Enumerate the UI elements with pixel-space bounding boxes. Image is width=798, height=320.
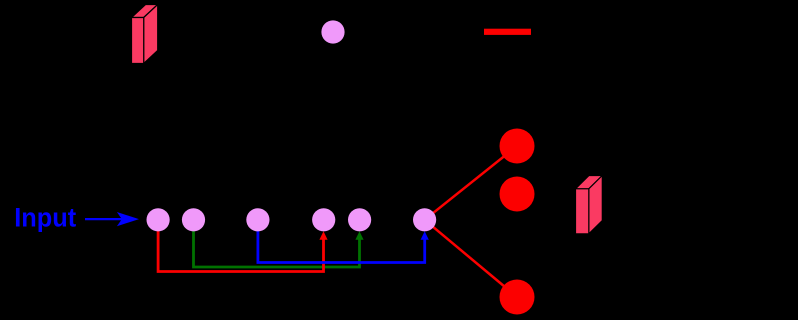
svg-text:Input: Input bbox=[14, 202, 76, 232]
